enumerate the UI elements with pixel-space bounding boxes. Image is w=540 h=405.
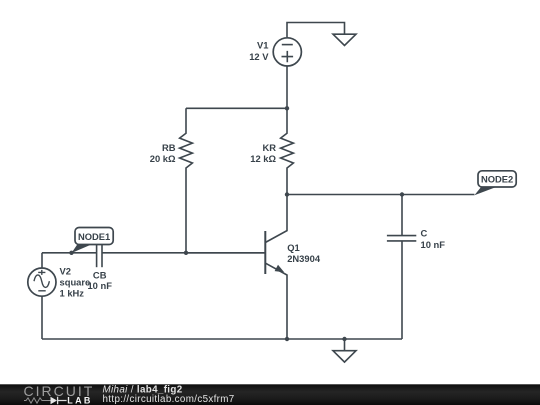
svg-text:NODE1: NODE1 [78, 231, 110, 242]
footer title text [103, 385, 235, 405]
transistor Q1 [265, 195, 287, 340]
label V2 value [60, 266, 91, 299]
wire [287, 23, 345, 38]
svg-text:V1: V1 [257, 40, 268, 51]
ground [333, 34, 356, 45]
svg-text:20 kΩ: 20 kΩ [150, 153, 176, 164]
resistor KR [281, 108, 294, 194]
svg-text:Q1: Q1 [287, 242, 300, 253]
junction dot [285, 192, 289, 196]
junction dot [69, 251, 73, 255]
capacitor CB [97, 238, 102, 267]
svg-text:CB: CB [93, 270, 107, 281]
svg-text:1 kHz: 1 kHz [60, 288, 85, 299]
svg-text:square: square [60, 277, 91, 288]
logo CIRCUIT LAB [24, 383, 95, 405]
svg-text:C: C [421, 228, 428, 239]
svg-text:RB: RB [162, 142, 176, 153]
wire [287, 194, 474, 196]
svg-text:NODE2: NODE2 [481, 174, 513, 185]
capacitor C [387, 195, 416, 340]
svg-text:LAB: LAB [67, 395, 92, 405]
node NODE1 [72, 228, 114, 254]
label RB value [150, 142, 176, 164]
svg-text:V2: V2 [60, 266, 71, 277]
voltage source V1 [273, 38, 301, 66]
label C value [421, 228, 446, 251]
svg-text:http://circuitlab.com/c5xfrm7: http://circuitlab.com/c5xfrm7 [103, 394, 235, 405]
label Q1 value [287, 242, 321, 264]
node NODE2 [474, 171, 516, 195]
junction dot [400, 192, 404, 196]
wire [42, 252, 97, 254]
wire [186, 252, 265, 254]
resistor RB [180, 108, 193, 253]
svg-text:2N3904: 2N3904 [287, 253, 321, 264]
wire [186, 107, 287, 109]
wire [102, 252, 265, 254]
ground [333, 339, 356, 362]
junction dot [184, 251, 188, 255]
svg-text:12 kΩ: 12 kΩ [250, 153, 276, 164]
wire [286, 66, 288, 108]
junction dot [285, 106, 289, 110]
voltage source V2 [28, 253, 56, 339]
label V1 value [249, 40, 269, 63]
footer bar [0, 384, 540, 405]
label KR value [250, 142, 276, 164]
wire [42, 338, 402, 340]
svg-text:12 V: 12 V [249, 51, 269, 62]
label CB value [87, 270, 112, 292]
svg-text:10 nF: 10 nF [87, 280, 112, 291]
junction dot [285, 337, 289, 341]
junction dot [342, 337, 346, 341]
svg-text:10 nF: 10 nF [421, 239, 446, 250]
svg-text:KR: KR [262, 142, 276, 153]
